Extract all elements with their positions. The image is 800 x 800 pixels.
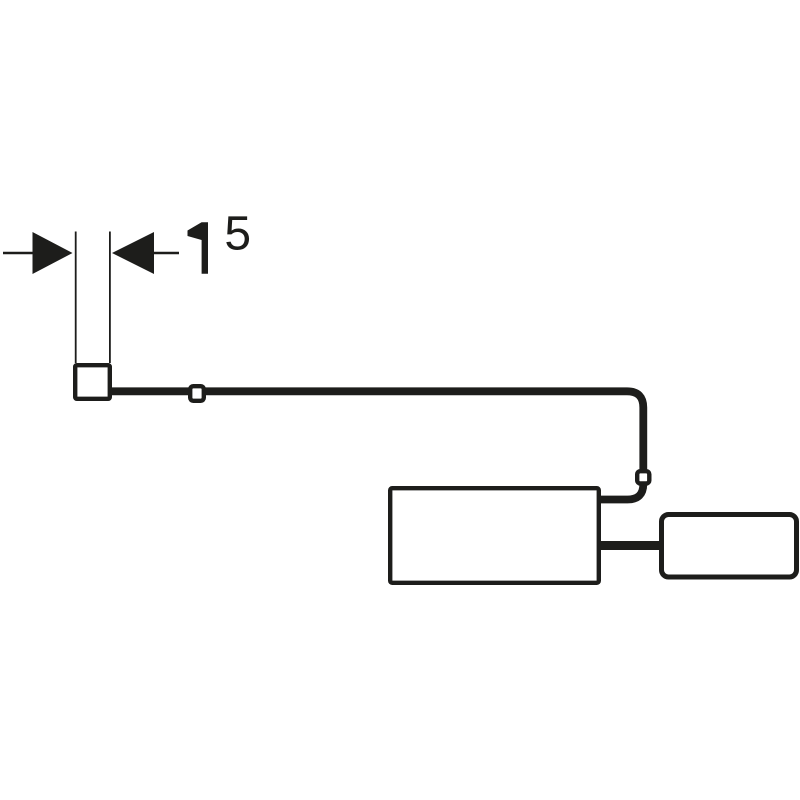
svg-text:5: 5 [224,208,251,261]
